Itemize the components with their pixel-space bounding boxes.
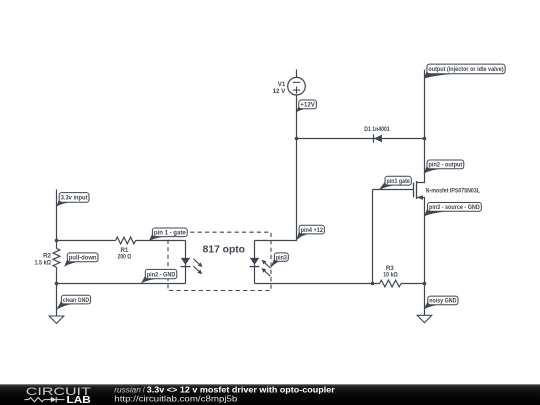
wire R1 right lead to opto LED [136,240,186,242]
node clean GND [56,295,90,310]
junction [55,282,59,286]
wire D1 horizontal net [297,138,425,140]
resistor R3 10 k&#937; [380,265,402,287]
svg-text:817 opto: 817 opto [203,244,245,255]
wire opto LED vertical [185,241,187,284]
junction [55,239,59,243]
junction [295,137,299,141]
svg-text:pin3 - source - GND: pin3 - source - GND [429,204,480,211]
svg-text:N-mosfet IPS075N03L: N-mosfet IPS075N03L [426,187,480,194]
node noisy GND [423,296,458,309]
diode D1 1n4001 [364,126,390,143]
wire mosfet gate lead [373,189,414,191]
svg-text:pull-down: pull-down [69,255,97,262]
svg-text:3.3v <> 12 v mosfet driver wit: 3.3v <> 12 v mosfet driver with opto-cou… [147,385,335,394]
svg-text:pin4 +12: pin4 +12 [301,227,324,234]
footer bar [0,384,540,405]
svg-text:pin1 gate: pin1 gate [387,178,411,185]
opto photodiode (receiver side) [250,258,271,276]
pin label pin2 - GND [141,269,177,283]
svg-text:12 V: 12 V [273,88,287,95]
junction [423,282,427,286]
node pull-down [64,253,98,267]
svg-text:output (injector or idle valve: output (injector or idle valve) [428,66,503,73]
svg-text:1.5 kΩ: 1.5 kΩ [35,260,52,267]
wire R3 right lead [401,283,425,285]
wire photodiode cathode to R3 [255,283,380,285]
pin label pin1 gate [379,176,412,190]
svg-text:10 kΩ: 10 kΩ [383,271,398,278]
wire 3.3v input rail upper [56,190,58,249]
svg-text:noisy GND: noisy GND [429,298,457,305]
svg-text:V1: V1 [278,81,286,88]
svg-text:+12V: +12V [300,102,315,109]
wire mosfet source to noisy GND [417,198,425,316]
svg-text:pin3: pin3 [276,254,287,261]
node output (injector or idle valve) [424,64,505,79]
wire R1 left lead [57,240,116,242]
n-mosfet Q1 IPS075N03L [414,181,481,200]
wire R2 to clean GND [56,267,58,316]
svg-text:pin2 - GND: pin2 - GND [147,271,176,278]
svg-text:3.3v input: 3.3v input [61,195,88,202]
svg-text:http://circuitlab.com/c8mpj5b: http://circuitlab.com/c8mpj5b [114,394,238,403]
opto LED (emitter side) [181,258,203,274]
wire pin2-GND return [57,283,186,285]
node +12V [296,100,317,113]
CircuitLab logo [25,386,91,405]
junction [423,137,427,141]
wire pin1 gate vertical [372,190,374,284]
resistor R2 1.5 k&#937; [35,248,60,267]
ground clean GND [49,316,64,323]
svg-text:clean GND: clean GND [63,297,90,304]
resistor R1 200 &#937; [116,237,136,261]
wire photodiode anode to +12 rail [255,95,297,241]
voltage source V1 12 V [273,77,306,95]
svg-text:pin 1 - gate: pin 1 - gate [154,230,186,237]
pin label pin 1 - gate [149,228,187,241]
junction [371,282,375,286]
svg-text:200 Ω: 200 Ω [118,254,132,261]
opto-coupler dashed package box [168,232,271,290]
pin label pin4 +12 [296,225,324,240]
ground noisy GND [417,315,432,322]
svg-text:russian: russian [114,385,141,394]
wire output to mosfet drain [417,70,425,183]
pin label pin3 [270,253,288,268]
node 3.3v input [56,193,89,207]
wire opto photodiode vertical [254,241,256,284]
svg-text:pin2 - output: pin2 - output [429,162,463,169]
footer title text [114,385,334,403]
svg-text:D1 1n4001: D1 1n4001 [364,126,390,133]
pin label pin3 - source - GND [424,203,481,217]
pin label pin2 - output [423,160,463,174]
wire V1 top stub [296,70,298,78]
svg-text:LAB: LAB [67,395,91,405]
